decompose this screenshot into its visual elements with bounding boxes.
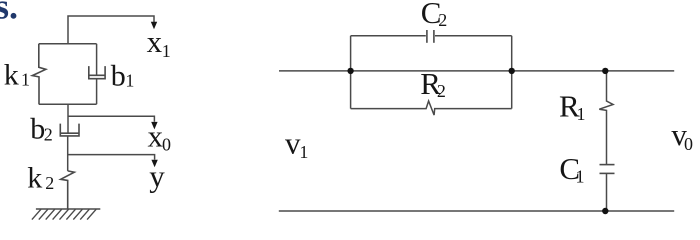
junction dot bottom of R1C1 branch: [602, 208, 608, 214]
svg-text:b: b: [111, 59, 126, 92]
damper b2 cylinder: [60, 124, 79, 136]
junction dot left of parallel block: [347, 68, 353, 74]
svg-text:1: 1: [125, 71, 134, 91]
wire: stub above k1-b1 box up and over to x1 arrow: [68, 16, 154, 44]
svg-text:1: 1: [576, 167, 585, 187]
junction dot top of R1C1 branch: [602, 68, 608, 74]
svg-text:2: 2: [45, 173, 54, 193]
wire: parallel block right wall: [511, 36, 513, 109]
svg-text:s.: s.: [0, 0, 18, 27]
wire: y tap line: [68, 155, 155, 160]
resistor R2: [351, 101, 512, 115]
svg-text:1: 1: [21, 69, 30, 89]
node y arrow: [151, 160, 157, 168]
wire: b2 to spring k2: [67, 136, 69, 171]
svg-text:k: k: [4, 59, 19, 92]
svg-text:k: k: [27, 161, 42, 194]
svg-text:0: 0: [162, 134, 171, 154]
wire: k1-b1 box bottom bar: [39, 103, 97, 105]
damper b1 rod: [96, 44, 98, 76]
node x1 arrow: [151, 22, 157, 30]
wire: b1 cylinder to box bottom bar: [96, 79, 98, 105]
svg-text:1: 1: [162, 41, 171, 61]
svg-text:2: 2: [437, 81, 446, 101]
svg-text:y: y: [149, 159, 165, 194]
spring k2: [61, 171, 75, 209]
wire: box bottom to damper b2 piston: [67, 104, 69, 133]
damper b2 piston: [60, 132, 79, 134]
damper b1 cylinder: [89, 66, 105, 79]
wire: k1-b1 box top bar: [39, 43, 97, 45]
wire: circuit bottom rail: [279, 210, 674, 212]
capacitor C2 plates: [426, 30, 428, 43]
wire: circuit top rail: [279, 70, 674, 72]
wire: top branch with capacitor C2: [351, 35, 426, 37]
wire: C1 to bottom rail: [606, 173, 608, 211]
resistor R1: [599, 71, 613, 165]
svg-text:2: 2: [438, 10, 447, 30]
svg-text:x: x: [147, 24, 163, 59]
svg-text:2: 2: [44, 125, 53, 145]
damper b1 piston: [89, 74, 105, 76]
ground: [32, 209, 100, 220]
spring k1: [32, 44, 46, 104]
junction dot right of parallel block: [509, 68, 515, 74]
wire: x0 tap line: [68, 116, 154, 122]
svg-text:0: 0: [684, 134, 693, 154]
svg-text:1: 1: [299, 142, 308, 162]
node x0 arrow: [151, 122, 157, 129]
capacitor C1 plates: [600, 164, 615, 166]
wire: parallel block left wall: [350, 36, 352, 109]
svg-text:1: 1: [577, 104, 586, 124]
